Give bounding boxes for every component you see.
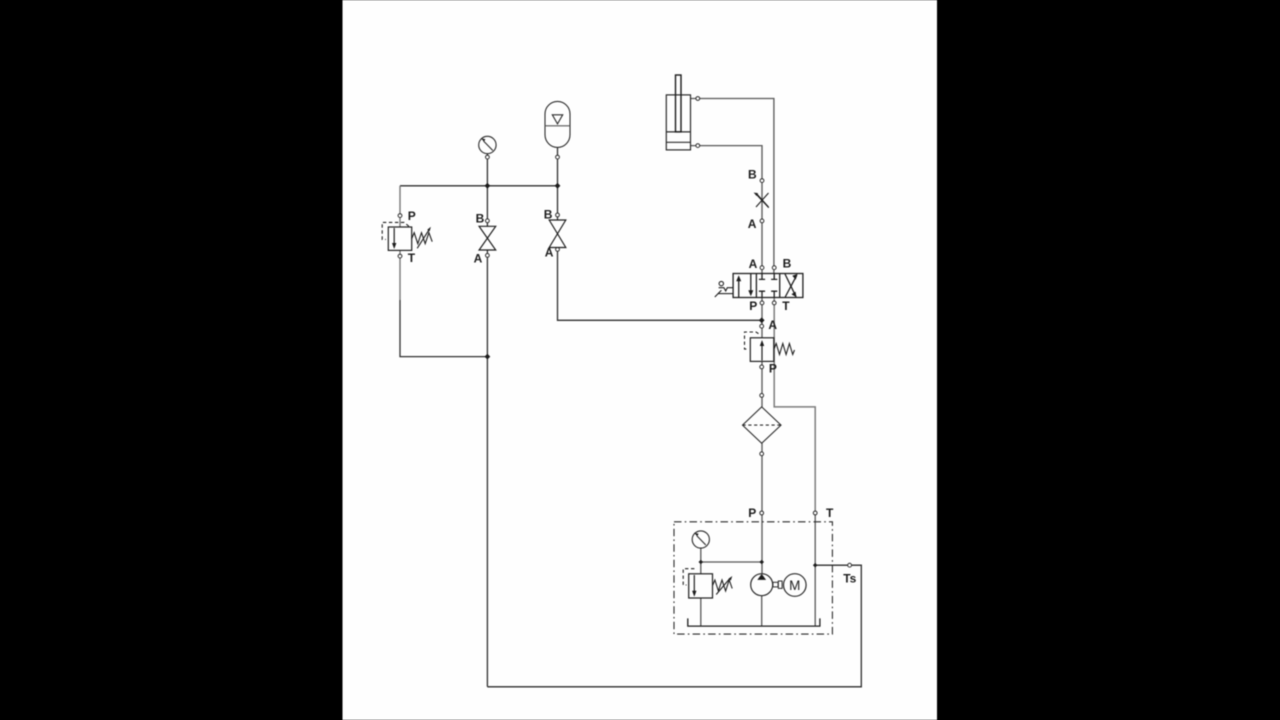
svg-text:T: T xyxy=(826,506,834,520)
svg-text:A: A xyxy=(749,257,758,271)
svg-text:P: P xyxy=(769,362,777,376)
svg-text:B: B xyxy=(783,257,792,271)
svg-text:P: P xyxy=(748,506,756,520)
svg-text:A: A xyxy=(474,251,483,265)
svg-text:A: A xyxy=(768,318,777,332)
svg-text:P: P xyxy=(749,299,757,313)
svg-text:A: A xyxy=(748,217,757,231)
svg-text:B: B xyxy=(748,168,757,182)
svg-text:P: P xyxy=(408,209,416,223)
svg-text:Ts: Ts xyxy=(843,572,856,586)
svg-text:T: T xyxy=(782,299,790,313)
svg-text:M: M xyxy=(789,578,800,593)
svg-text:T: T xyxy=(408,251,416,265)
svg-text:B: B xyxy=(476,211,485,225)
svg-text:B: B xyxy=(544,208,553,222)
svg-text:A: A xyxy=(545,245,554,259)
